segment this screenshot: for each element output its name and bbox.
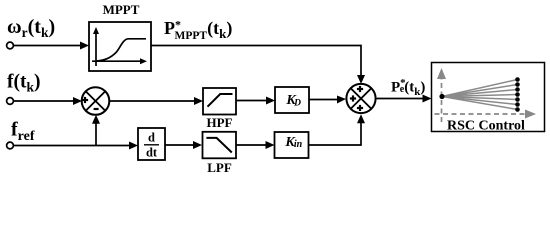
label f_ref [11,119,35,145]
summing junction S1 [82,87,110,115]
label omega_r(t_k) [7,16,55,40]
svg-text:MPPT: MPPT [103,2,140,17]
input terminal omega_r [7,42,14,49]
label RSC Control [447,119,525,134]
label P*_e(t_k) [391,77,425,98]
summing junction S2 [346,84,375,113]
wire LPF to K_in [236,141,275,149]
input terminal f [7,98,14,105]
wire MPPT output to summing junction S2 (right then down) [151,46,365,85]
svg-text:d: d [148,131,155,145]
label P*_MPPT(t_k) [164,18,232,43]
label f(t_k) [7,72,41,95]
gain block K_D [275,87,309,113]
gain block K_in [275,132,309,158]
block d/dt [138,128,165,160]
svg-text:P*MPPT(tk): P*MPPT(tk) [164,18,232,43]
svg-text:D: D [293,99,301,109]
svg-text:fref: fref [11,119,35,145]
RSC fan lines [442,80,518,110]
wire omega_r input to MPPT [13,42,89,50]
svg-text:P*e(tk): P*e(tk) [391,77,425,98]
wire K_D to summing junction S2 [309,96,346,104]
wire K_in to summing junction S2 (right then up) [309,114,366,145]
RSC dashed horizontal axis [435,110,537,119]
svg-text:dt: dt [146,146,158,160]
svg-text:in: in [294,139,303,150]
RSC fan origin dot [439,94,444,99]
RSC fan end dots [515,77,520,112]
wire HPF to K_D [236,97,275,105]
RSC dashed vertical axis [437,68,446,122]
wire S2 to RSC Control [376,95,432,103]
wire S1 to HPF [109,97,203,105]
svg-text:LPF: LPF [207,160,232,175]
block MPPT [89,2,151,71]
svg-text:HPF: HPF [207,115,233,130]
wire f_ref to d/dt [13,142,138,150]
svg-text:RSC Control: RSC Control [447,119,525,134]
wire d/dt to LPF [165,141,202,149]
block LPF [203,132,237,175]
block RSC Control [432,63,545,132]
input terminal f_ref [7,142,14,149]
svg-text:f(tk): f(tk) [7,72,41,95]
block HPF [203,88,236,130]
wire branch f_ref up to S1 [92,115,100,146]
svg-text:ωr(tk): ωr(tk) [7,16,55,40]
wire f input to summing junction S1 [13,97,82,105]
